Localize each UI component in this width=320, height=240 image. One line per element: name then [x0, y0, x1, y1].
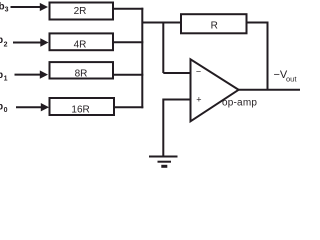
svg-text:2: 2: [4, 41, 8, 48]
svg-text:2R: 2R: [74, 6, 87, 17]
svg-text:out: out: [286, 75, 297, 84]
svg-text:+: +: [196, 95, 201, 105]
svg-text:op-amp: op-amp: [222, 97, 257, 108]
svg-text:0: 0: [4, 107, 8, 114]
svg-text:−: −: [196, 67, 201, 77]
svg-text:8R: 8R: [75, 69, 88, 80]
svg-text:3: 3: [5, 6, 9, 13]
svg-text:1: 1: [4, 76, 8, 83]
svg-text:R: R: [211, 21, 218, 32]
svg-text:16R: 16R: [71, 104, 89, 115]
svg-text:4R: 4R: [74, 40, 87, 51]
